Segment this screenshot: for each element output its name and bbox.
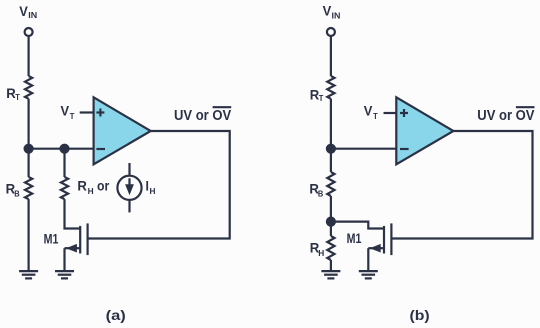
wire M1 source to ground (b)	[367, 248, 369, 271]
svg-text:UV or OV: UV or OV	[477, 108, 534, 124]
current source I_H arrow (a)	[125, 178, 134, 195]
caption (b)	[410, 308, 430, 323]
resistor R_H (b)	[327, 236, 334, 260]
wire node to op-amp minus input (a)	[29, 148, 94, 150]
current source I_H top stub (a)	[128, 163, 130, 176]
op-amp U2 (b)	[396, 97, 453, 164]
wire V_T to op-amp plus input (a)	[80, 111, 94, 113]
svg-text:H: H	[150, 186, 156, 196]
wire R_B to R_H (b)	[330, 196, 332, 236]
wire terminal to R_T (b)	[330, 36, 332, 76]
transistor M1 (a)	[65, 223, 88, 255]
svg-text:IN: IN	[332, 11, 341, 21]
svg-text:M1: M1	[347, 231, 362, 246]
wire op-amp output feedback to M1 gate (b)	[391, 131, 532, 239]
svg-text:or: or	[97, 179, 110, 194]
node V_IN (b) label	[323, 3, 341, 20]
overline over OV (b)	[516, 106, 535, 108]
overline over OV (a)	[213, 106, 232, 108]
wire M1 source to ground (a)	[63, 248, 65, 271]
resistor R_T (a)	[25, 76, 32, 99]
svg-text:V: V	[364, 103, 373, 118]
current source I_H circle (a)	[117, 176, 141, 200]
wire node to op-amp minus input (b)	[331, 148, 396, 150]
label R_H or (a)	[77, 179, 109, 196]
label M1 (a)	[44, 231, 59, 246]
wire terminal to R_T (a)	[28, 36, 30, 76]
terminal V_IN (b)	[327, 28, 335, 36]
wire R_H to M1 drain (a)	[65, 199, 81, 228]
svg-text:(b): (b)	[410, 308, 430, 323]
label I_H (a)	[146, 179, 156, 196]
label R_B (b)	[309, 181, 323, 198]
label R_B (a)	[6, 182, 20, 199]
svg-text:B: B	[318, 189, 323, 199]
svg-text:R: R	[77, 179, 87, 194]
ground below R_H (b)	[321, 271, 340, 278]
label V_T (b)	[364, 103, 379, 121]
op-amp minus sign (b)	[400, 148, 409, 150]
label R_H (b)	[310, 241, 325, 258]
label R_T (a)	[6, 86, 20, 102]
ground below R_B (a)	[19, 271, 38, 278]
wire op-amp output feedback to M1 gate (a)	[88, 131, 230, 239]
current source I_H bottom stub (a)	[128, 200, 130, 213]
transistor M1 (b)	[368, 223, 391, 255]
svg-text:I: I	[146, 179, 149, 194]
svg-text:V: V	[61, 103, 70, 118]
label V_T (a)	[61, 103, 76, 121]
wire R_T to R_B (b)	[330, 99, 332, 172]
node V_IN (a) label	[19, 4, 37, 20]
resistor R_H (a)	[61, 177, 68, 199]
wire R_T to R_B (a)	[28, 99, 30, 177]
label M1 (b)	[347, 231, 362, 246]
svg-text:T: T	[70, 111, 75, 121]
wire V_T to op-amp plus input (b)	[384, 112, 397, 114]
wire R_B to ground (a)	[28, 199, 30, 271]
label UV or OV output (b)	[477, 108, 534, 124]
label UV or OV output (a)	[174, 108, 231, 124]
svg-text:H: H	[88, 186, 94, 196]
node junction dot M1 drain (b)	[327, 218, 335, 226]
svg-text:H: H	[318, 248, 324, 258]
node junction dot to op-amp (b)	[327, 145, 335, 153]
wire node to M1 drain (b)	[331, 222, 384, 229]
resistor R_B (a)	[25, 177, 32, 199]
caption (a)	[106, 308, 126, 323]
svg-text:T: T	[373, 111, 378, 121]
label R_T (b)	[310, 87, 324, 103]
svg-text:T: T	[15, 92, 20, 102]
svg-text:UV or OV: UV or OV	[174, 108, 231, 124]
svg-text:B: B	[14, 188, 19, 198]
resistor R_T (b)	[327, 76, 334, 99]
op-amp minus sign (a)	[96, 148, 105, 150]
op-amp plus sign (a)	[96, 109, 104, 117]
terminal V_IN (a)	[25, 28, 33, 36]
ground below M1 (a)	[55, 271, 74, 278]
svg-text:V: V	[19, 4, 28, 19]
resistor R_B (b)	[327, 172, 334, 196]
wire node to R_H (a)	[63, 149, 65, 177]
svg-text:M1: M1	[44, 231, 59, 246]
node junction dot R_H branch (a)	[61, 145, 69, 153]
wire R_H to ground (b)	[330, 260, 332, 271]
ground below M1 (b)	[359, 271, 378, 278]
node junction dot left (a)	[25, 145, 33, 153]
svg-text:(a): (a)	[106, 308, 126, 323]
op-amp U1 (a)	[94, 97, 151, 164]
svg-text:IN: IN	[28, 10, 37, 20]
op-amp plus sign (b)	[400, 109, 408, 117]
svg-text:T: T	[319, 93, 324, 103]
